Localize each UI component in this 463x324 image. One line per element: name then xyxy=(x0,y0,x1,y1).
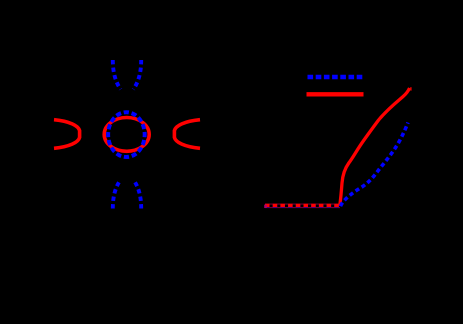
flat blue dashed baseline segment xyxy=(265,205,342,208)
red curve end tick xyxy=(410,87,411,90)
dim lower fringe of baseline xyxy=(265,207,340,209)
right red hyperbola wing xyxy=(174,120,200,149)
bottom-left blue hyperbola wing xyxy=(113,180,121,209)
top-left blue hyperbola wing xyxy=(113,60,121,89)
left red hyperbola wing xyxy=(54,120,80,149)
red solid curve (right chart) xyxy=(340,88,410,206)
red ellipse (solid iso-frequency contour) xyxy=(104,117,149,151)
magenta cap at left end of baseline xyxy=(264,205,267,208)
dim upper fringe of baseline xyxy=(265,203,340,205)
top-right blue hyperbola wing xyxy=(133,60,141,89)
bottom-right blue hyperbola wing xyxy=(133,180,141,209)
legend blue dashed line xyxy=(308,75,364,79)
legend red solid line xyxy=(307,92,364,96)
blue dashed ellipse (dashed iso-frequency contour) xyxy=(108,112,145,157)
flat red dashed baseline segment xyxy=(265,204,340,207)
blue dashed curve (right chart) xyxy=(341,123,409,207)
